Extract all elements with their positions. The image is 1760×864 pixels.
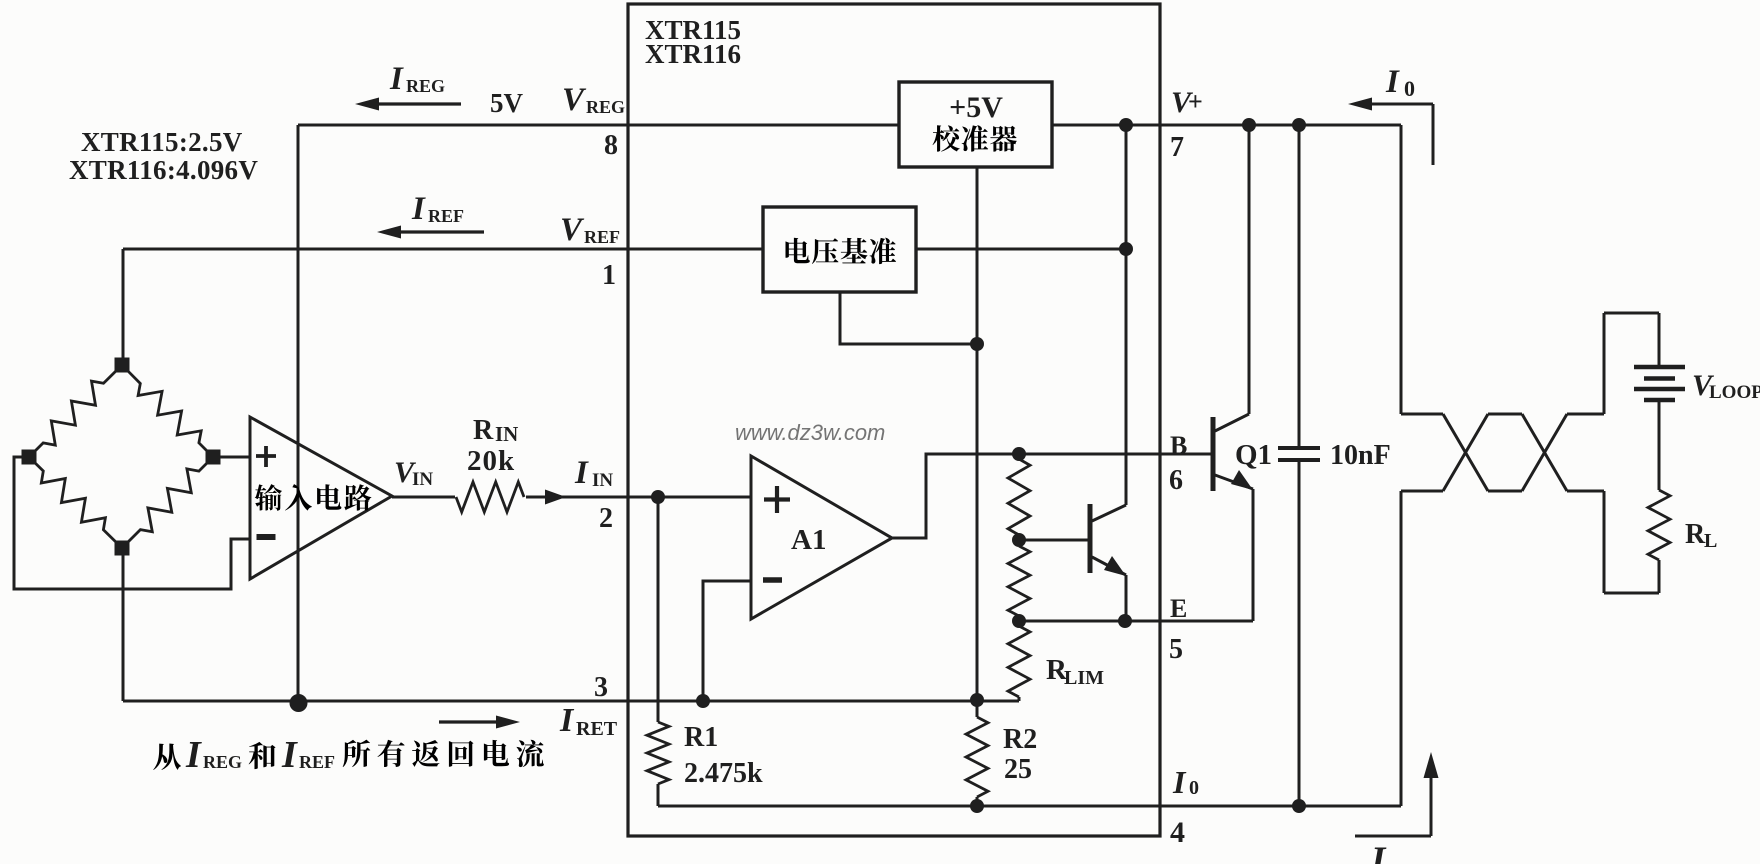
svg-text:B: B <box>1170 431 1187 460</box>
svg-text:REG: REG <box>586 97 625 117</box>
svg-text:I: I <box>411 191 426 227</box>
svg-text:LIM: LIM <box>1064 667 1104 689</box>
svg-text:2.475k: 2.475k <box>684 758 763 789</box>
svg-text:V: V <box>560 212 585 248</box>
svg-text:5V: 5V <box>490 88 524 118</box>
svg-text:1: 1 <box>602 260 616 291</box>
svg-text:0: 0 <box>1404 76 1415 101</box>
svg-text:LOOP: LOOP <box>1709 382 1760 403</box>
svg-text:20k: 20k <box>467 445 515 477</box>
svg-text:RET: RET <box>576 718 618 740</box>
svg-text:6: 6 <box>1169 465 1183 496</box>
svg-text:R: R <box>473 415 494 446</box>
svg-text:REG: REG <box>203 752 242 772</box>
svg-text:E: E <box>1170 594 1187 623</box>
svg-text:IN: IN <box>412 469 433 490</box>
svg-text:25: 25 <box>1004 754 1032 785</box>
svg-text:IN: IN <box>495 422 518 446</box>
svg-text:L: L <box>1704 530 1717 552</box>
svg-text:4: 4 <box>1170 816 1185 849</box>
svg-text:+: + <box>1188 87 1203 116</box>
svg-text:XTR115:2.5V: XTR115:2.5V <box>81 127 243 157</box>
svg-text:XTR116:4.096V: XTR116:4.096V <box>69 155 258 185</box>
svg-text:REF: REF <box>299 752 335 772</box>
svg-text:5: 5 <box>1169 634 1183 665</box>
svg-text:R2: R2 <box>1003 724 1037 755</box>
svg-text:R1: R1 <box>684 722 718 753</box>
svg-text:www.dz3w.com: www.dz3w.com <box>735 420 885 445</box>
svg-text:I: I <box>185 734 202 776</box>
svg-text:8: 8 <box>604 130 618 161</box>
svg-text:0: 0 <box>1189 777 1199 799</box>
svg-text:I: I <box>1172 764 1187 800</box>
svg-text:7: 7 <box>1170 132 1184 163</box>
svg-text:I: I <box>1385 64 1400 100</box>
svg-text:2: 2 <box>599 503 613 534</box>
svg-text:REG: REG <box>406 76 445 96</box>
svg-text:I: I <box>1370 840 1387 864</box>
svg-text:I: I <box>389 61 404 97</box>
svg-text:Q1: Q1 <box>1235 439 1272 471</box>
svg-text:V: V <box>562 82 587 118</box>
svg-text:A1: A1 <box>791 524 826 556</box>
svg-text:I: I <box>574 455 589 491</box>
svg-text:IN: IN <box>592 470 613 491</box>
svg-text:REF: REF <box>428 206 464 226</box>
svg-text:R: R <box>1685 519 1706 550</box>
svg-text:XTR116: XTR116 <box>645 39 741 69</box>
svg-text:+5V: +5V <box>949 91 1003 124</box>
svg-text:I: I <box>281 734 298 776</box>
svg-text:10nF: 10nF <box>1330 440 1391 471</box>
svg-text:I: I <box>559 702 575 739</box>
svg-text:REF: REF <box>584 227 620 247</box>
svg-text:3: 3 <box>594 672 608 703</box>
